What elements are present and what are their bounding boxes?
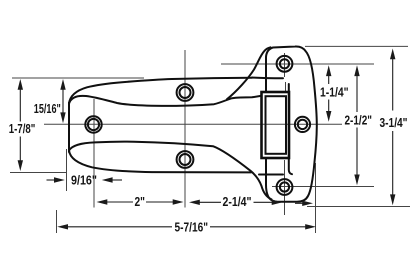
dimension 9/16 right arrow [106,179,122,181]
strap lower blade inner edge [69,142,272,200]
plate middle hole [295,117,310,132]
dimension 3-1/4 down arrow [390,194,395,205]
top middle hole [177,84,194,101]
left hole [85,116,101,132]
short arrow to plate right extension [295,202,307,204]
dimension 2-1/2 up arrow [354,65,359,76]
svg-text:2-1/4": 2-1/4" [223,194,252,209]
strap upper blade inner edge [69,96,262,106]
strap end sweep to plate top [227,47,271,99]
svg-text:2": 2" [135,194,146,209]
dimension 1-1/4 up arrow [326,65,331,76]
extension line bottom of strap [10,172,67,174]
extension line top of strap [12,77,144,79]
svg-text:3-1/4": 3-1/4" [380,115,408,130]
dimension 2 left arrow [97,199,108,204]
dimension 15/16 down arrow [60,112,65,123]
centerline [44,123,342,125]
svg-text:1-1/4": 1-1/4" [320,85,349,100]
dimension 1-7/8 up arrow [18,79,23,90]
extension line left hole vertical [93,99,95,208]
dimension 2 right arrow [173,199,184,204]
dimension 15/16 up arrow [60,79,65,90]
dimension 15/16 line [62,87,64,113]
strap lower blade bottom edge [69,151,251,173]
plate bottom hole [277,179,293,195]
dimension 2-1/2 line [356,73,358,112]
extension line bottom hole horizontal [272,186,374,188]
svg-text:1-7/8": 1-7/8" [9,121,36,136]
pin housing inner rectangle [266,96,287,154]
plate top hole [277,56,293,72]
dimension 1-7/8 line bottom [19,137,21,164]
knuckle bottom line [259,174,283,176]
dimension 2-1/2 down arrow [354,175,359,186]
dimension 5-7/16 line [61,226,172,228]
extension line top hole vertical [284,53,286,77]
dimension 2-1/4 left arrow [189,200,200,205]
dimension 2-1/4 right arrow [272,200,283,205]
extension line strap left edge [66,149,68,191]
extension line bottom hole vertical [284,160,286,215]
dimension 5-7/16 right arrow [305,224,316,229]
dimension 5-7/16 left arrow [57,224,68,229]
svg-text:9/16": 9/16" [71,172,97,187]
strap upper blade top edge [69,78,252,104]
extension line plate top [305,45,408,47]
extension line plate bottom [307,206,410,208]
butt plate outline [266,46,317,201]
strap top edge continuation over plate [252,77,283,80]
bottom middle hole [177,151,194,168]
knuckle line above pin housing [288,84,290,92]
pin housing outer rectangle [262,92,290,158]
svg-text:15/16": 15/16" [34,101,61,116]
hinge strap left end edge [68,103,70,153]
svg-text:2-1/2": 2-1/2" [345,113,373,128]
dimension 1-7/8 down arrow [18,160,23,171]
knuckle line above pin housing 2 [285,82,287,92]
svg-text:5-7/16": 5-7/16" [175,219,209,234]
extension line middle holes vertical [184,50,186,208]
dimension 2 line [101,201,133,203]
dimension 2-1/4 line [193,201,221,203]
extension line plate right [315,163,317,233]
dimension 1-1/4 line [328,73,330,84]
dimension 3-1/4 line [392,56,394,111]
dimension 3-1/4 up arrow [390,49,395,60]
extension line 5-7/16 left [56,210,58,233]
knuckle line below pin housing [289,158,292,174]
dimension 1-1/4 down arrow [326,111,331,122]
dimension 9/16 left arrow [47,179,59,181]
dimension 1-7/8 line top [19,87,21,122]
extension line top hole horizontal [221,63,374,65]
